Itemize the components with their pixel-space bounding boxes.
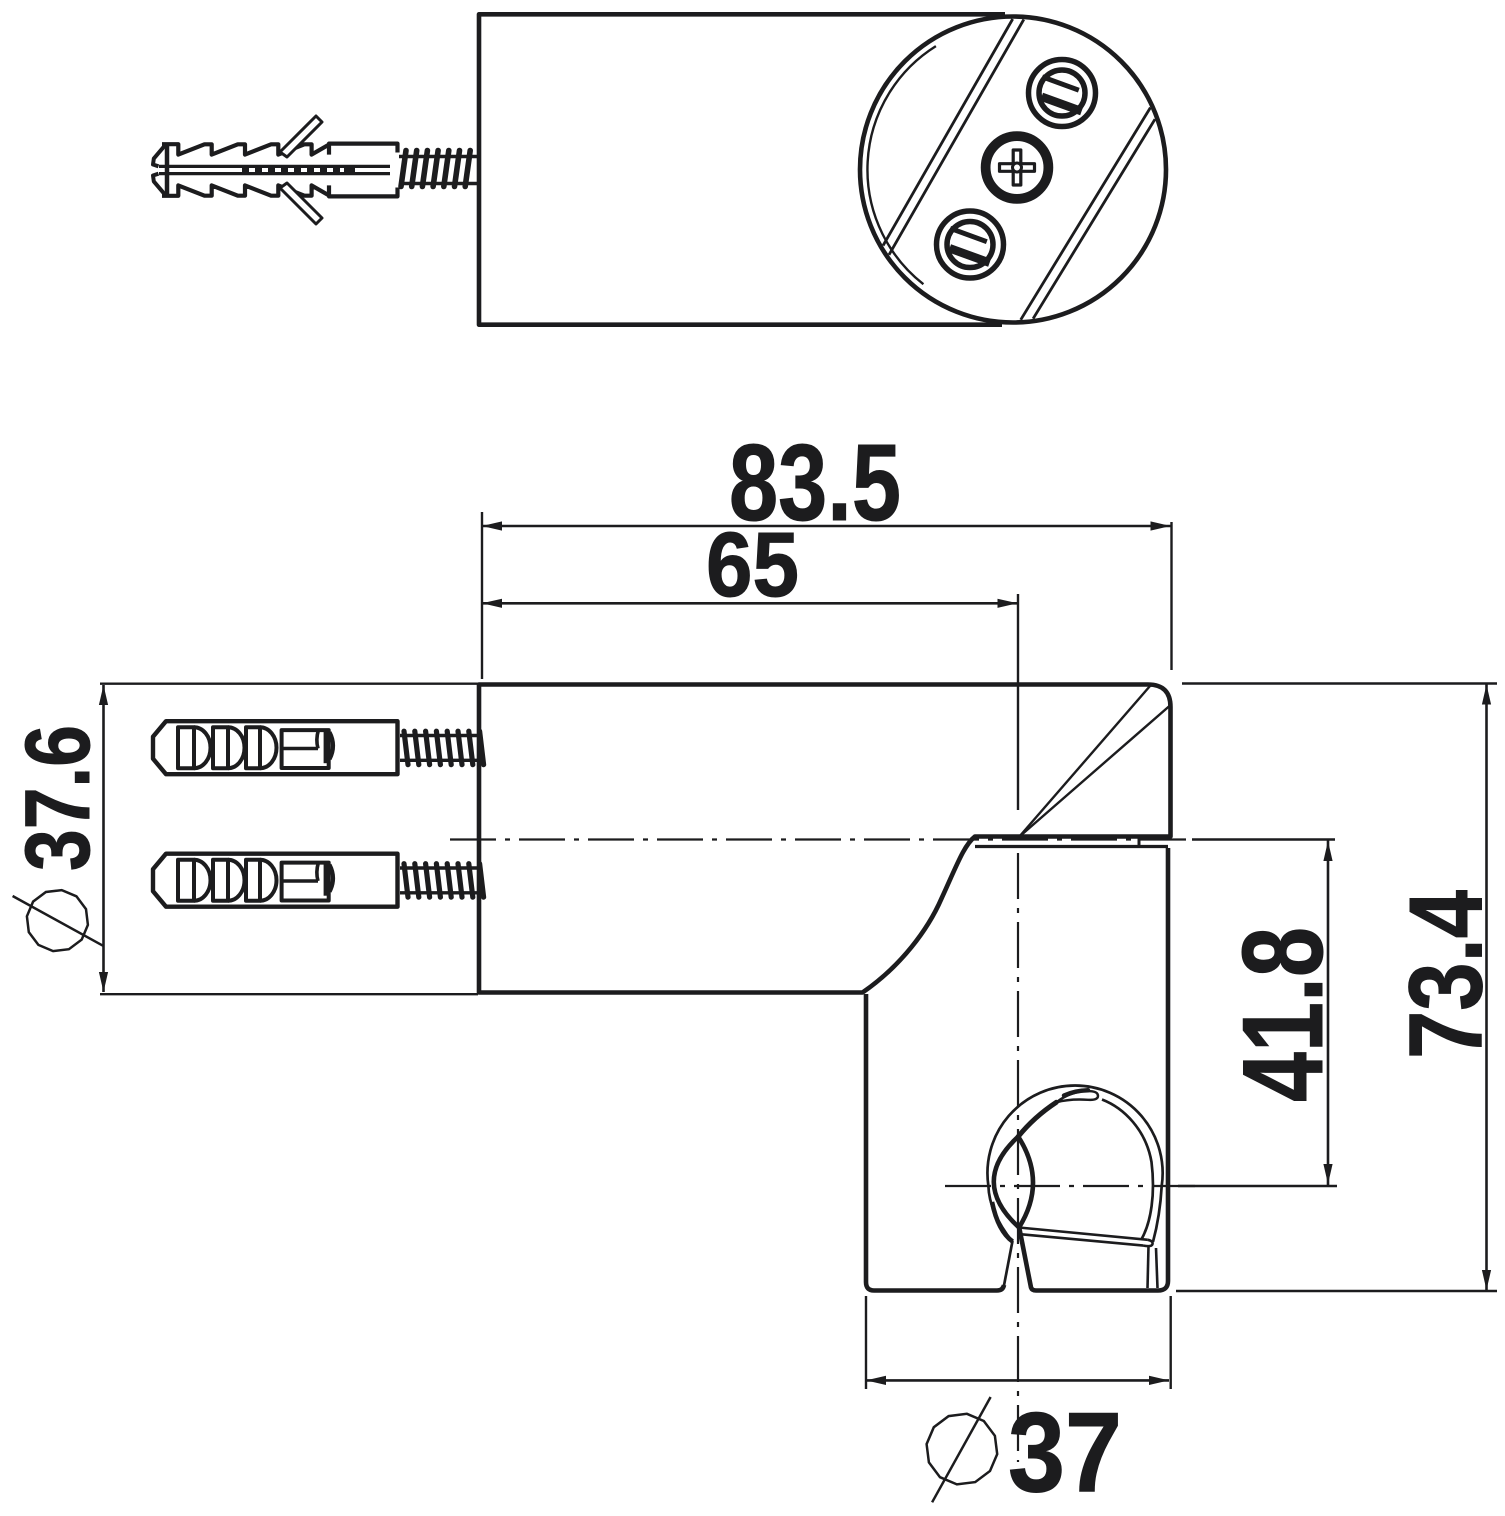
dimension 73.4 top arrow (1482, 685, 1491, 705)
svg-text:41.8: 41.8 (1220, 927, 1347, 1102)
extension line top 41.8 (1192, 838, 1335, 840)
dimension 73.4 bottom arrow (1482, 1270, 1491, 1290)
anti-rotation fin lower (280, 183, 322, 224)
socket lip edge vertical 2 (1156, 1248, 1158, 1288)
wall plug (top view) lower sawtooth edge (162, 185, 329, 195)
cap slot chord line upper-left A2 (889, 19, 1024, 254)
wall plug (top view) nose lower (153, 174, 166, 196)
holder upper arm outline (front view) (479, 685, 1171, 993)
socket outer arc (987, 1086, 1162, 1242)
dimension 65 line (482, 602, 1018, 605)
dimension 83.5 line (482, 525, 1171, 528)
dimension 37 left arrow (866, 1376, 886, 1385)
holder lower arm right edge and bottom-right (1019, 848, 1168, 1291)
chamfer fan line 1 (1019, 686, 1150, 837)
socket top oval slot (1056, 1091, 1098, 1102)
socket lip rounded tip (1144, 1240, 1153, 1246)
extension line bottom 73.4 (1176, 1290, 1497, 1292)
bottom slot left leg (1004, 1241, 1013, 1288)
dimension 37 line (866, 1379, 1169, 1382)
dimension 41.8 line (1327, 840, 1330, 1185)
extension line left 37 (865, 1296, 867, 1389)
socket outer arc lower-left thick segment (992, 1202, 1013, 1242)
dimension 37.6 top arrow (99, 685, 108, 705)
socket inner arc (1102, 1100, 1153, 1239)
screw thread dashes inside plug slot (242, 166, 355, 175)
dimension 83.5 right arrow (1151, 521, 1171, 530)
wall plug rim bar (165, 145, 170, 195)
slotted screw S1 (top right) (1029, 60, 1096, 127)
dimension text 41.8 (rotated) (1220, 927, 1347, 1102)
wall plug central slot upper line (159, 165, 390, 168)
dimension 83.5 left arrow (482, 521, 502, 530)
anti-rotation fin upper (280, 116, 322, 157)
dimension 41.8 top arrow (1323, 841, 1332, 861)
end cap circle (top view) (860, 17, 1166, 323)
wall plug (top view) nose upper (153, 144, 166, 166)
dimension 37.6 line (102, 685, 105, 992)
centerline vertical arm axis (1017, 853, 1019, 1462)
wall plug central slot lower line (159, 172, 390, 175)
extension line right 37 (1169, 1296, 1171, 1389)
dimension text 83.5 (729, 422, 901, 544)
dimension text 73.4 (rotated) (1389, 890, 1505, 1059)
dimension 37 right arrow (1149, 1376, 1169, 1385)
diameter symbol for 37 (927, 1397, 998, 1502)
wall anchor upper (front view) (153, 721, 484, 774)
slotted screw S3 (bottom left) (937, 211, 1004, 278)
centerline socket axis (945, 1185, 1195, 1187)
wall-mount cylinder body (top view, side outline) (479, 14, 1005, 324)
chamfer fan line 2 (1019, 706, 1170, 838)
dimension text 37 (1008, 1389, 1122, 1515)
extension line top 37.6 (100, 683, 478, 685)
socket lip lower line (1022, 1234, 1144, 1245)
dimension 65 left arrow (482, 599, 502, 608)
cap slot chord line lower-right B1 (1021, 108, 1151, 320)
dimension 41.8 bottom arrow (1323, 1164, 1332, 1184)
socket lens right arc (1018, 1137, 1033, 1228)
extension line right 65 (to chamfer tip) (1017, 594, 1019, 810)
svg-text:73.4: 73.4 (1389, 890, 1505, 1059)
socket top oval thick rim (1064, 1090, 1088, 1095)
socket lip edge vertical 1 (1148, 1246, 1149, 1288)
centerline horizontal arm axis (450, 838, 1195, 840)
dimension text 37.6 (rotated) (7, 725, 109, 871)
extension line bottom 41.8 (1178, 1185, 1337, 1187)
socket lip upper line (1019, 1228, 1148, 1240)
svg-text:37: 37 (1008, 1389, 1122, 1515)
extension line top 73.4 (1182, 682, 1497, 684)
dimension 65 right arrow (998, 599, 1018, 608)
socket cut edge from lens top to oval (1018, 1102, 1056, 1136)
dimension text 65 (706, 514, 799, 616)
holder lower arm left edge and bottom-left (866, 994, 1004, 1291)
socket lens left arc (994, 1137, 1019, 1228)
extension line bottom 37.6 (100, 993, 478, 995)
cap slot chord line upper-left A1 (883, 19, 1013, 246)
svg-text:37.6: 37.6 (7, 725, 109, 871)
diameter symbol for 37.6 (13, 890, 103, 951)
extension line left (83.5/65) (481, 512, 483, 679)
screw thread coil (top view) (399, 151, 478, 187)
wall plug (top view) upper sawtooth edge (162, 144, 329, 154)
dimension 37.6 bottom arrow (99, 972, 108, 992)
svg-text:65: 65 (706, 514, 799, 616)
extension line right 83.5 (1170, 522, 1172, 670)
seam line under step (975, 838, 1168, 847)
wall anchor lower (front view) (153, 854, 484, 907)
phillips screw S2 (center) (984, 134, 1051, 201)
dimension 73.4 line (1485, 684, 1488, 1291)
cap slot chord line lower-right B2 (1033, 119, 1155, 319)
wall plug collar (top view) (329, 144, 398, 197)
end cap inner rim arc (left side) (867, 46, 935, 284)
